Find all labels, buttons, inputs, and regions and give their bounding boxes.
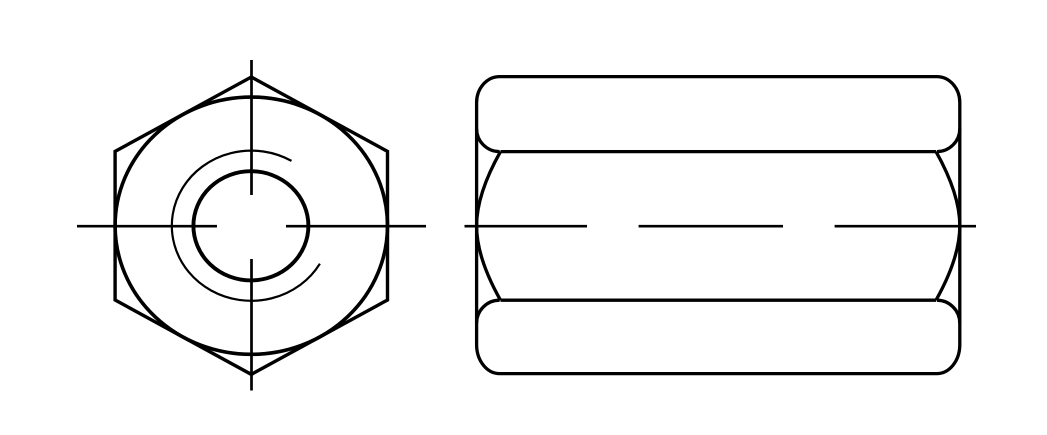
left view: hexagon outline [115, 77, 387, 374]
right view: top face left chamfer corner arc [477, 129, 500, 152]
right view: lower face edge line [501, 299, 937, 302]
left view: vertical centerline top segment [250, 60, 253, 195]
right view: centerline dash 2 [639, 225, 783, 228]
right view: bottom face left chamfer corner arc [477, 300, 500, 323]
left view: thread hole circle (bold) [193, 171, 308, 280]
right view: centerline dash 1 [465, 225, 588, 228]
right view: bottom face right chamfer corner arc [937, 300, 960, 323]
right view: middle face right chamfer bulge arc [936, 152, 960, 301]
left view: thread arc (thin 3/4 circle) [172, 151, 320, 301]
left view: horizontal centerline left segment [77, 225, 217, 228]
left view: horizontal centerline right segment [286, 225, 426, 228]
right view: upper face edge line [501, 150, 937, 153]
right view: outline (rounded rectangle silhouette) [477, 77, 960, 374]
right view: middle face left chamfer bulge arc [477, 152, 501, 301]
left view: chamfer circle (inscribed ellipse) [115, 97, 387, 354]
right view: centerline dash 3 [835, 225, 976, 228]
left view: vertical centerline bottom segment [250, 259, 253, 391]
right view: top face right chamfer corner arc [937, 129, 960, 152]
